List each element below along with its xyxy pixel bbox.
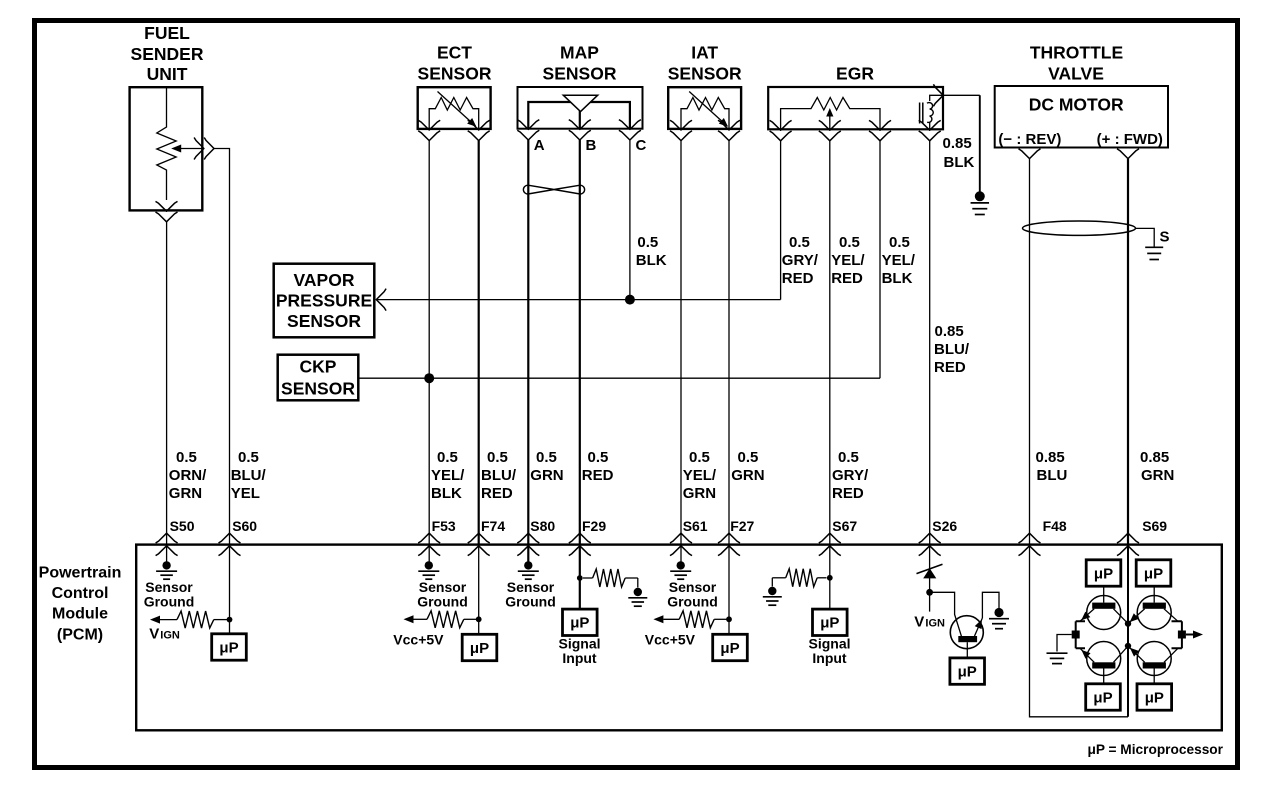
svg-text:YEL: YEL — [231, 485, 260, 502]
svg-text:BLU/: BLU/ — [231, 467, 267, 484]
svg-text:YEL/: YEL/ — [882, 252, 916, 269]
svg-text:μP: μP — [219, 639, 238, 656]
microprocessor uP (bridge TR) — [1136, 560, 1171, 586]
MAP sensor transducer triangle — [563, 95, 597, 111]
label MAP SENSOR — [543, 43, 617, 84]
node S67 junction — [827, 575, 833, 581]
svg-text:0.5: 0.5 — [487, 449, 508, 466]
node H-bridge right — [1178, 631, 1186, 639]
svg-text:F27: F27 — [730, 518, 754, 534]
svg-text:μP: μP — [570, 615, 589, 632]
wire vapor sensor line — [376, 299, 780, 301]
microprocessor uP (S67) — [813, 609, 848, 635]
wire transistor emitter to ground — [982, 592, 999, 618]
ground sensor ground S50 — [162, 561, 170, 569]
CKP sensor box — [278, 355, 359, 401]
ECT thermistor — [429, 98, 479, 130]
wire DC motor positive to S69 — [1127, 159, 1129, 544]
microprocessor uP (bridge BR) — [1137, 684, 1172, 710]
ground for EGR solenoid — [975, 191, 985, 201]
svg-text:RED: RED — [934, 359, 966, 376]
svg-text:F48: F48 — [1043, 518, 1067, 534]
svg-text:SENSOR: SENSOR — [668, 63, 742, 83]
microprocessor uP (S60) — [212, 634, 247, 660]
transistor H-bridge bottom-right — [1127, 642, 1178, 685]
svg-text:YEL/: YEL/ — [831, 252, 865, 269]
wire S26 to transistor base — [930, 592, 962, 636]
svg-text:F29: F29 — [582, 518, 606, 534]
svg-text:BLK: BLK — [944, 154, 975, 171]
svg-text:GRN: GRN — [731, 467, 764, 484]
fuel sender wiper terminal connector — [194, 138, 204, 160]
svg-text:Ground: Ground — [144, 594, 195, 610]
wire S67 into PCM — [829, 546, 831, 610]
svg-text:(− : REV): (− : REV) — [998, 131, 1061, 148]
EGR solenoid bottom lead — [929, 123, 931, 130]
shield ellipse on throttle wires — [1023, 221, 1136, 235]
resistor F29 load — [583, 577, 593, 579]
svg-text:UNIT: UNIT — [147, 64, 188, 84]
svg-text:YEL/: YEL/ — [431, 467, 465, 484]
svg-text:GRY/: GRY/ — [782, 252, 819, 269]
ground sensor ground S80 — [524, 561, 532, 569]
svg-text:0.5: 0.5 — [738, 449, 759, 466]
IAT terminal connectors — [670, 120, 692, 130]
svg-text:Ground: Ground — [417, 594, 468, 610]
wire F27 into PCM — [728, 546, 730, 634]
MAP sensor middle lead — [579, 111, 581, 129]
svg-text:Ground: Ground — [667, 594, 718, 610]
label Sensor Ground (S50) — [144, 579, 195, 610]
EGR solenoid coil — [919, 103, 921, 124]
svg-text:F53: F53 — [432, 518, 456, 534]
svg-text:SENSOR: SENSOR — [281, 378, 355, 398]
label Powertrain Control Module (PCM) — [39, 565, 122, 644]
label Sensor Ground (S61) — [667, 579, 718, 610]
microprocessor uP (bridge BL) — [1086, 684, 1121, 710]
node H-bridge left — [1072, 631, 1080, 639]
svg-text:μP: μP — [720, 640, 739, 657]
EGR potentiometer — [781, 98, 880, 130]
label VAPOR PRESSURE SENSOR — [276, 270, 372, 331]
wire EGR2 to S67 — [829, 141, 831, 544]
node vapor line junction with MAP C — [625, 295, 635, 305]
svg-text:SENSOR: SENSOR — [418, 63, 492, 83]
ground F29 load — [634, 588, 642, 596]
label ECT SENSOR — [418, 43, 492, 84]
svg-text:BLU: BLU — [1037, 467, 1068, 484]
svg-text:0.85: 0.85 — [1140, 449, 1169, 466]
svg-text:0.5: 0.5 — [889, 234, 910, 251]
fuel sender unit box — [130, 87, 203, 210]
svg-text:0.5: 0.5 — [789, 234, 810, 251]
twisted pair mark on MAP wires — [523, 185, 584, 194]
label Sensor Ground (S80) — [505, 579, 556, 610]
fuel sender resistor — [157, 88, 176, 201]
svg-text:YEL/: YEL/ — [683, 467, 717, 484]
svg-text:CKP: CKP — [300, 356, 337, 376]
microprocessor uP (F29) — [563, 609, 598, 635]
svg-text:SENSOR: SENSOR — [543, 63, 617, 83]
wire IAT to F27 — [728, 141, 730, 544]
svg-text:SENDER: SENDER — [131, 44, 204, 64]
svg-text:Vcc+5V: Vcc+5V — [393, 631, 444, 647]
microprocessor uP (F27) — [713, 634, 748, 660]
EGR solenoid top wire to ground — [930, 95, 980, 101]
wire ECT to F74 — [478, 141, 480, 544]
MAP sensor box — [518, 87, 643, 129]
shield drain wire — [1136, 228, 1155, 246]
svg-text:μP: μP — [1094, 565, 1113, 582]
wire EGR solenoid to S26 — [929, 141, 931, 544]
svg-text:GRN: GRN — [683, 485, 716, 502]
wire S61 into PCM — [680, 546, 682, 562]
wire fuel sender wiper to S60 — [214, 149, 230, 545]
svg-text:EGR: EGR — [836, 63, 874, 83]
svg-text:0.85: 0.85 — [1036, 449, 1065, 466]
svg-text:(+ : FWD): (+ : FWD) — [1097, 131, 1163, 148]
wire F48 into PCM loop — [1030, 546, 1129, 717]
svg-text:GRY/: GRY/ — [832, 467, 869, 484]
svg-text:BLK: BLK — [882, 270, 913, 287]
svg-text:THROTTLE: THROTTLE — [1030, 43, 1123, 63]
transistor H-bridge top-left — [1079, 587, 1128, 630]
svg-text:BLK: BLK — [636, 252, 667, 269]
wire S69 through H-bridge — [1127, 546, 1129, 717]
node CKP line junction with F53 — [424, 373, 434, 383]
svg-text:Control: Control — [52, 585, 109, 602]
transistor Q1 driver — [950, 616, 983, 649]
resistor Vcc pullup F74 — [404, 615, 414, 623]
label Signal Input (F29) — [558, 636, 600, 667]
microprocessor uP (S26) — [950, 658, 985, 684]
svg-text:S50: S50 — [170, 518, 195, 534]
wire F74 into PCM — [478, 546, 480, 634]
DC motor box — [995, 86, 1168, 148]
svg-text:BLU/: BLU/ — [481, 467, 517, 484]
node S26 junction — [926, 589, 933, 596]
svg-text:F74: F74 — [481, 518, 505, 534]
svg-text:μP = Microprocessor: μP = Microprocessor — [1087, 742, 1223, 757]
wire CKP sensor line — [359, 377, 880, 379]
ground for shield — [1145, 246, 1163, 248]
svg-text:Input: Input — [812, 650, 847, 666]
H-bridge left leg — [1075, 621, 1077, 648]
label THROTTLE VALVE — [1030, 43, 1123, 84]
svg-text:DC MOTOR: DC MOTOR — [1029, 94, 1124, 114]
microprocessor uP (F74) — [462, 634, 497, 660]
label Sensor Ground (F53) — [417, 579, 468, 610]
svg-text:Input: Input — [562, 650, 597, 666]
EGR corner connector chevron — [933, 84, 943, 106]
svg-text:0.5: 0.5 — [839, 234, 860, 251]
svg-text:ORN/: ORN/ — [169, 467, 207, 484]
wire MAP C to vapor node — [629, 140, 631, 300]
vapor pressure sensor box — [274, 264, 375, 338]
svg-text:S80: S80 — [530, 518, 555, 534]
resistor VIGN pullup S60 — [150, 616, 160, 624]
ground H-bridge — [1057, 635, 1072, 652]
svg-text:0.5: 0.5 — [536, 449, 557, 466]
ground sensor ground S61 — [677, 561, 685, 569]
svg-text:0.5: 0.5 — [689, 449, 710, 466]
wire EGR1 GRY/RED down to vapor line — [780, 141, 782, 300]
wire DC motor negative to F48 — [1029, 159, 1031, 544]
svg-text:0.5: 0.5 — [176, 449, 197, 466]
node F27 resistor junction — [726, 616, 732, 622]
H-bridge upper rail — [1076, 620, 1182, 622]
wire ECT to F53 — [428, 141, 430, 544]
wire F29 into PCM — [579, 546, 581, 610]
svg-text:VALVE: VALVE — [1048, 63, 1104, 83]
label Signal Input (S67) — [808, 636, 850, 667]
svg-text:SENSOR: SENSOR — [287, 311, 361, 331]
resistor S67 load — [772, 577, 785, 579]
svg-text:ECT: ECT — [437, 43, 472, 63]
svg-text:μP: μP — [1145, 689, 1164, 706]
transistor H-bridge top-right — [1127, 587, 1178, 630]
label CKP SENSOR — [281, 356, 355, 398]
PCM module box — [136, 545, 1222, 731]
svg-text:S26: S26 — [932, 518, 957, 534]
svg-text:FUEL: FUEL — [144, 23, 190, 43]
label IAT SENSOR — [668, 43, 742, 84]
EGR terminal connectors — [770, 120, 792, 130]
node H-bridge mid upper — [1125, 620, 1131, 626]
svg-text:A: A — [534, 137, 545, 154]
svg-text:0.5: 0.5 — [588, 449, 609, 466]
wire MAP A to S80 — [527, 140, 529, 544]
IAT sensor box — [668, 87, 741, 129]
svg-text:IAT: IAT — [691, 43, 718, 63]
H-bridge right leg — [1181, 621, 1183, 648]
wire MAP B to F29 — [579, 140, 581, 544]
svg-text:μP: μP — [820, 615, 839, 632]
svg-text:RED: RED — [481, 485, 513, 502]
svg-text:S: S — [1159, 229, 1169, 246]
node F29 junction — [577, 575, 583, 581]
node H-bridge mid lower — [1125, 643, 1131, 649]
vapor sensor input arrow — [376, 289, 386, 311]
ground sensor ground F53 — [425, 561, 433, 569]
node F74 resistor junction — [476, 616, 482, 622]
svg-text:μP: μP — [1093, 689, 1112, 706]
svg-text:GRN: GRN — [1141, 467, 1174, 484]
svg-text:C: C — [636, 137, 647, 154]
svg-text:IGN: IGN — [925, 618, 945, 630]
svg-text:Module: Module — [52, 606, 108, 623]
wire EGR3 YEL/BLK down to CKP line — [879, 141, 881, 378]
svg-text:μP: μP — [1144, 565, 1163, 582]
svg-text:0.5: 0.5 — [838, 449, 859, 466]
svg-text:0.5: 0.5 — [437, 449, 458, 466]
wire S50 into PCM — [166, 546, 168, 562]
node S60 resistor junction — [227, 617, 233, 623]
svg-text:RED: RED — [582, 467, 614, 484]
svg-text:VAPOR: VAPOR — [294, 270, 355, 290]
svg-text:BLU/: BLU/ — [934, 341, 970, 358]
svg-text:μP: μP — [470, 640, 489, 657]
svg-text:GRN: GRN — [530, 467, 563, 484]
svg-text:0.85: 0.85 — [943, 135, 972, 152]
svg-text:BLK: BLK — [431, 485, 462, 502]
H-bridge lower rail — [1076, 647, 1182, 649]
svg-text:B: B — [586, 137, 597, 154]
wire S26 into PCM — [929, 546, 931, 592]
svg-text:S67: S67 — [832, 518, 857, 534]
svg-text:0.5: 0.5 — [238, 449, 259, 466]
svg-text:RED: RED — [831, 270, 863, 287]
wire F53 into PCM — [428, 546, 430, 562]
svg-text:S69: S69 — [1142, 518, 1167, 534]
MAP sensor internal bus — [528, 102, 630, 129]
H-bridge output arrow — [1186, 634, 1195, 636]
EGR pot wiper — [826, 108, 833, 117]
transistor H-bridge bottom-left — [1079, 642, 1128, 685]
zener diode S26 — [923, 568, 936, 578]
svg-text:IGN: IGN — [160, 630, 180, 642]
wire IAT to S61 — [680, 141, 682, 544]
svg-text:V: V — [149, 626, 159, 643]
DC motor terminal chevrons — [1019, 149, 1041, 159]
svg-text:V: V — [914, 614, 924, 631]
wire VIGN stub S26 — [929, 592, 931, 611]
MAP terminal connectors A B C — [517, 120, 539, 130]
IAT thermistor — [681, 98, 729, 130]
svg-text:Ground: Ground — [505, 594, 556, 610]
svg-text:RED: RED — [832, 485, 864, 502]
wire fuel sender to S50 — [166, 222, 168, 544]
svg-text:MAP: MAP — [560, 43, 599, 63]
svg-text:PRESSURE: PRESSURE — [276, 290, 372, 310]
wire S60 into PCM — [229, 546, 231, 634]
EGR box — [768, 87, 943, 129]
svg-text:GRN: GRN — [169, 485, 202, 502]
label FUEL SENDER UNIT — [131, 23, 204, 84]
svg-text:S61: S61 — [683, 518, 708, 534]
svg-text:0.85: 0.85 — [935, 323, 964, 340]
svg-text:RED: RED — [782, 270, 814, 287]
microprocessor uP (bridge TL) — [1086, 560, 1121, 586]
ECT terminal connectors — [418, 120, 440, 130]
wire S80 into PCM — [527, 546, 529, 562]
fuel sender bottom terminal connector — [156, 201, 178, 211]
svg-text:0.5: 0.5 — [637, 234, 658, 251]
fuel sender wiper arrow — [171, 145, 181, 153]
svg-text:(PCM): (PCM) — [57, 627, 103, 644]
ground transistor emitter — [994, 608, 1003, 617]
svg-text:Vcc+5V: Vcc+5V — [645, 631, 696, 647]
resistor Vcc pullup F27 — [653, 615, 663, 623]
ECT sensor box — [418, 87, 491, 129]
svg-text:Powertrain: Powertrain — [39, 565, 122, 582]
svg-text:S60: S60 — [232, 518, 257, 534]
svg-text:μP: μP — [958, 664, 977, 681]
ground S67 load — [768, 587, 776, 595]
